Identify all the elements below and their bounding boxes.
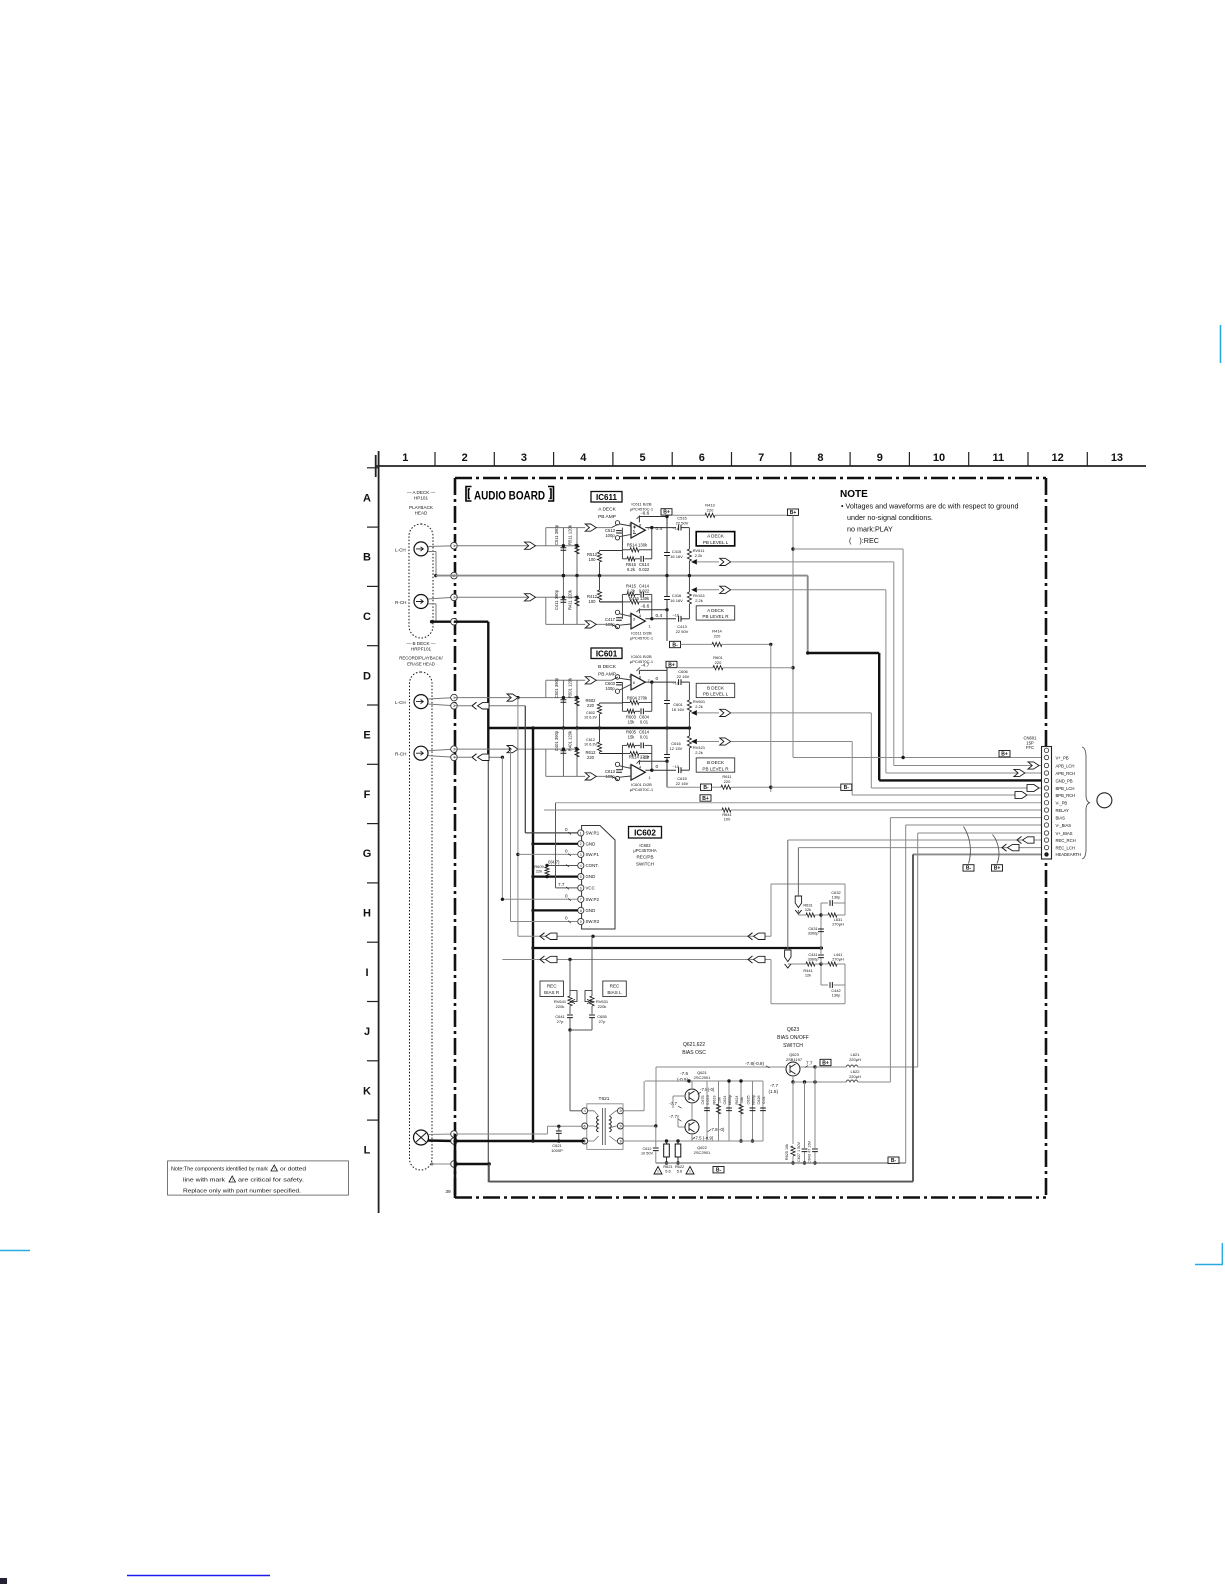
svg-text:0.022: 0.022 xyxy=(639,567,650,572)
resistor R625 10k xyxy=(792,1082,794,1144)
svg-text:under no-signal conditions.: under no-signal conditions. xyxy=(847,513,933,522)
feedback network xyxy=(622,744,627,746)
svg-text:11: 11 xyxy=(993,452,1005,464)
svg-text:8: 8 xyxy=(817,452,823,464)
wire xyxy=(428,597,454,599)
svg-text:G: G xyxy=(363,848,372,860)
svg-text:PB LEVEL L: PB LEVEL L xyxy=(703,540,729,545)
wire APB_RCH xyxy=(886,772,1042,774)
svg-text:4: 4 xyxy=(580,452,587,464)
svg-text:GND_PB: GND_PB xyxy=(1056,778,1073,783)
svg-text:D: D xyxy=(363,670,371,682)
svg-text:15k: 15k xyxy=(628,720,636,725)
wire REC L bus xyxy=(518,935,771,937)
svg-text:6800p: 6800p xyxy=(728,1095,732,1106)
svg-text:9: 9 xyxy=(580,920,582,924)
svg-text:10: 10 xyxy=(933,452,945,464)
svg-text:B DECK: B DECK xyxy=(598,664,617,670)
wire xyxy=(666,783,668,787)
svg-text:5: 5 xyxy=(580,875,582,879)
svg-text:F: F xyxy=(364,789,371,801)
svg-text:9: 9 xyxy=(877,452,883,464)
svg-text:4: 4 xyxy=(580,864,582,868)
svg-text:B+: B+ xyxy=(668,662,675,668)
B DECK PB LEVEL L box xyxy=(696,683,735,697)
IC602 pins xyxy=(578,830,584,836)
head coil L-CH (A deck) xyxy=(414,542,428,556)
svg-text:-6.6: -6.6 xyxy=(641,604,650,610)
svg-text:μPC4570C-1: μPC4570C-1 xyxy=(630,787,654,792)
resistor R441 12k xyxy=(788,963,806,965)
svg-text:μPC4570HA: μPC4570HA xyxy=(633,848,657,853)
signal arrow xyxy=(585,524,596,531)
resistor R611 220 xyxy=(712,786,722,788)
wire xyxy=(620,766,631,769)
IC602 body xyxy=(582,826,615,930)
svg-text:NOTE: NOTE xyxy=(840,489,868,500)
svg-text:-7.7: -7.7 xyxy=(770,1083,778,1088)
svg-text:SW.R1: SW.R1 xyxy=(586,831,600,836)
wire erase ground (thick) xyxy=(454,1140,585,1142)
down arrow (REC L) xyxy=(795,896,801,908)
svg-text:HRPF101: HRPF101 xyxy=(411,646,432,651)
svg-text:SWITCH: SWITCH xyxy=(783,1043,803,1049)
svg-text:C626: C626 xyxy=(757,1095,761,1104)
REC BIAS R box xyxy=(540,981,564,997)
svg-text:R604 270k: R604 270k xyxy=(627,695,648,700)
capacitor C442 130p xyxy=(821,984,828,986)
op-amp IC611b xyxy=(631,613,645,629)
IC602 label xyxy=(629,827,662,839)
IC601 label xyxy=(591,648,622,659)
svg-text:2: 2 xyxy=(462,452,468,464)
svg-text:10k: 10k xyxy=(718,1097,722,1103)
svg-text:L-CH: L-CH xyxy=(395,700,406,705)
wire CONT xyxy=(547,865,578,867)
svg-text:220: 220 xyxy=(707,507,714,512)
wire BPB_RCH xyxy=(852,794,1042,796)
svg-text:2.2k: 2.2k xyxy=(695,553,703,558)
switch contact / capacitor C513 xyxy=(615,521,619,525)
svg-text:C602: C602 xyxy=(586,711,595,715)
capacitor C612 xyxy=(655,1126,657,1147)
svg-text:0: 0 xyxy=(565,893,568,898)
svg-text:C401 390p: C401 390p xyxy=(554,730,559,751)
wire xyxy=(428,749,454,751)
svg-text:5: 5 xyxy=(639,452,645,464)
svg-text:27p: 27p xyxy=(557,1019,564,1024)
wire xyxy=(428,545,454,548)
svg-text:R623: R623 xyxy=(712,1095,716,1104)
svg-text:-7.8(-0.9): -7.8(-0.9) xyxy=(745,1061,764,1066)
REC BIAS L box xyxy=(603,981,627,997)
wire xyxy=(594,775,612,777)
wire xyxy=(428,551,436,553)
svg-text:are critical for safety.: are critical for safety. xyxy=(238,1177,305,1183)
svg-text:GND: GND xyxy=(586,908,596,913)
svg-text:A DECK: A DECK xyxy=(707,534,725,539)
connector pin 1 (A deck) xyxy=(451,542,458,549)
svg-text:2: 2 xyxy=(580,842,582,846)
svg-text:1: 1 xyxy=(580,831,582,835)
svg-text:PB LEVEL R: PB LEVEL R xyxy=(702,766,729,771)
connector pin 7 (B deck) xyxy=(451,1161,458,1168)
record/playback head HRPF101 outline xyxy=(410,672,433,1170)
wire output xyxy=(645,527,676,529)
svg-text:no mark:PLAY: no mark:PLAY xyxy=(847,525,893,534)
head coil R-CH (A deck) xyxy=(414,595,428,609)
svg-text:A DECK: A DECK xyxy=(707,608,725,613)
svg-text:R514 130k: R514 130k xyxy=(627,543,648,548)
transformer pin 3 xyxy=(617,1108,623,1114)
capacitor C621 1000P xyxy=(558,1126,560,1130)
svg-text:2.2k: 2.2k xyxy=(695,704,703,709)
wire row pin3 A xyxy=(454,596,577,598)
svg-text:HEAD: HEAD xyxy=(415,510,428,515)
capacitor C515 22 50V xyxy=(679,525,681,531)
svg-text:B-: B- xyxy=(844,785,850,791)
wire xyxy=(793,548,903,550)
svg-text:39: 39 xyxy=(445,1189,451,1195)
switch contact / capacitor C613 xyxy=(615,762,619,766)
svg-text:10 6.3V: 10 6.3V xyxy=(584,743,598,747)
svg-text:V-_BIAS: V-_BIAS xyxy=(1056,823,1072,828)
svg-text:2.2k: 2.2k xyxy=(695,598,703,603)
svg-text:15k: 15k xyxy=(628,735,636,740)
wire xyxy=(454,1134,457,1198)
wire xyxy=(428,603,436,605)
wire xyxy=(731,712,872,714)
wire xyxy=(691,1134,693,1141)
signal arrow xyxy=(720,738,731,745)
wire base Q622 xyxy=(678,1126,685,1128)
wire xyxy=(594,679,612,681)
svg-text:-4.7: -4.7 xyxy=(641,663,650,669)
wire supply xyxy=(638,670,640,674)
power symbol B+ xyxy=(700,795,711,801)
svg-text:130p: 130p xyxy=(832,895,841,900)
wire GND3 xyxy=(533,909,578,911)
svg-text:BIAS ON/OFF: BIAS ON/OFF xyxy=(777,1035,809,1041)
wire base Q623 xyxy=(656,1066,786,1068)
potentiometer RV631 220k xyxy=(591,936,593,996)
svg-text:22 50V: 22 50V xyxy=(676,520,689,525)
fusible resistor R622 5.6 xyxy=(677,1141,679,1144)
signal arrow xyxy=(720,558,731,565)
svg-text:L: L xyxy=(364,1145,371,1157)
svg-text:C675: C675 xyxy=(701,1095,705,1104)
capacitor C606 22 16V xyxy=(679,679,681,685)
svg-text:BIAS L: BIAS L xyxy=(607,990,622,995)
wire T621 pin1 xyxy=(620,1140,678,1142)
wire SW.R1 xyxy=(525,832,577,834)
svg-text:0.015: 0.015 xyxy=(706,1095,710,1105)
svg-text:• Voltages and waveforms are d: • Voltages and waveforms are dc with res… xyxy=(841,502,1019,511)
wire input tap A-L xyxy=(545,528,547,546)
resistor R601 220 xyxy=(678,667,713,669)
svg-text:100: 100 xyxy=(589,557,597,562)
svg-text:10k: 10k xyxy=(740,1097,744,1103)
signal arrow xyxy=(507,746,518,753)
wire input tap A-R xyxy=(545,597,547,624)
wire output BL xyxy=(697,712,720,714)
wire T621 pin3 up xyxy=(620,1110,644,1112)
svg-text:0: 0 xyxy=(656,676,659,682)
wire xyxy=(428,756,454,758)
wire xyxy=(487,758,489,1182)
svg-text:220k: 220k xyxy=(598,1004,607,1009)
svg-text:−10: −10 xyxy=(673,765,679,769)
wire Q623 emitter xyxy=(792,1076,794,1082)
wire row pin1 A xyxy=(454,545,577,547)
svg-text:L-CH: L-CH xyxy=(395,548,406,553)
signal arrow xyxy=(540,956,545,963)
capacitor C632 130p xyxy=(821,902,828,904)
transistor Q621 xyxy=(685,1089,699,1103)
svg-text:B+: B+ xyxy=(822,1060,829,1066)
svg-text:SW.P1: SW.P1 xyxy=(586,852,600,857)
wire xyxy=(620,678,631,680)
svg-text:12k: 12k xyxy=(805,907,811,912)
svg-text:220: 220 xyxy=(715,660,722,665)
svg-text:— B DECK —: — B DECK — xyxy=(407,641,436,646)
power symbol B- xyxy=(888,1157,899,1163)
svg-text:B+: B+ xyxy=(994,866,1001,872)
capacitor C641 27p xyxy=(567,1015,573,1018)
svg-text:C501 390p: C501 390p xyxy=(554,677,559,698)
wire xyxy=(501,757,503,899)
wire output xyxy=(645,681,676,683)
svg-text:R-CH: R-CH xyxy=(395,600,406,605)
svg-text:220μH: 220μH xyxy=(849,1074,861,1079)
svg-text:PB AMP: PB AMP xyxy=(598,514,616,520)
R-ch rec filter loop xyxy=(771,1003,845,1005)
wire SW.P1 xyxy=(518,853,578,855)
svg-text:!: ! xyxy=(274,1167,275,1171)
svg-text:100p: 100p xyxy=(605,533,615,538)
osc bottom rail xyxy=(620,1140,763,1142)
wire row pin2 B xyxy=(472,702,477,709)
svg-text:C612: C612 xyxy=(586,738,595,742)
signal arrow xyxy=(748,956,753,963)
capacitor C501 / resistor R501 xyxy=(562,680,564,728)
svg-text:!: ! xyxy=(232,1178,233,1182)
wire V-_BIAS xyxy=(906,824,1042,826)
safety note box xyxy=(168,1161,349,1195)
svg-text:BIAS: BIAS xyxy=(1056,815,1066,820)
potentiometer RV601 2.2k xyxy=(688,682,690,700)
svg-text:-7.7: -7.7 xyxy=(669,1114,677,1119)
capacitor C631 3300p xyxy=(818,929,824,932)
wire input tap B-L xyxy=(545,680,547,697)
svg-text:5.6: 5.6 xyxy=(677,1169,682,1174)
svg-text:B-: B- xyxy=(891,1158,897,1164)
capacitor C413 22 50V xyxy=(679,616,681,622)
capacitor C511 / resistor R511 xyxy=(562,528,564,576)
wire xyxy=(594,527,612,529)
svg-text:PLAYBACK: PLAYBACK xyxy=(409,505,434,510)
svg-text:HP101: HP101 xyxy=(414,495,428,500)
grid ruler top xyxy=(376,452,1146,477)
fusible resistor R621 5.6 xyxy=(666,1141,668,1144)
svg-text:BIAS OSC: BIAS OSC xyxy=(682,1050,706,1056)
svg-text:C: C xyxy=(363,611,371,623)
svg-text:100p: 100p xyxy=(605,686,615,691)
svg-text:Q623: Q623 xyxy=(787,1027,799,1033)
svg-text:APB_LCH: APB_LCH xyxy=(1056,763,1075,768)
potentiometer RV641 220k xyxy=(569,960,571,997)
svg-text:22 16V: 22 16V xyxy=(676,781,689,786)
svg-text:0: 0 xyxy=(565,849,568,854)
power symbol B+ xyxy=(661,509,672,515)
wire pin7 shield xyxy=(454,1163,489,1165)
capacitor C655 27p xyxy=(589,1015,595,1018)
A DECK PB LEVEL R box xyxy=(696,606,735,620)
wire xyxy=(620,524,631,526)
wire xyxy=(487,622,489,758)
svg-text:( ):REC: ( ):REC xyxy=(849,536,879,545)
svg-text:line with mark: line with mark xyxy=(183,1177,225,1183)
svg-text:(1.5): (1.5) xyxy=(769,1089,779,1094)
wire T621 pin2 xyxy=(620,1125,655,1127)
note text block xyxy=(840,489,1019,545)
svg-text:IC601: IC601 xyxy=(596,650,618,659)
svg-text:0: 0 xyxy=(565,827,568,832)
op-amp IC611a xyxy=(631,522,645,538)
wire xyxy=(731,589,886,591)
safety mark xyxy=(686,1167,694,1175)
svg-text:C625: C625 xyxy=(746,1095,750,1104)
svg-text:3: 3 xyxy=(580,853,582,857)
feedback resistor R604 270k xyxy=(651,682,653,711)
wire row pin2 A (ground bus) xyxy=(436,575,808,577)
wire REC_RCH xyxy=(788,839,1042,841)
svg-text:or dotted: or dotted xyxy=(280,1166,306,1172)
svg-text:K: K xyxy=(363,1085,371,1097)
svg-text:SWITCH: SWITCH xyxy=(636,862,654,867)
svg-text:6: 6 xyxy=(699,452,705,464)
head coil R-CH (B deck) xyxy=(414,746,428,760)
wire xyxy=(428,698,454,699)
signal arrow xyxy=(507,694,518,701)
resistor R609 22k xyxy=(546,866,548,868)
wire xyxy=(620,614,631,617)
inductor L622 220uH xyxy=(793,1081,846,1083)
transformer pin 2 xyxy=(617,1123,623,1129)
wire xyxy=(510,749,512,921)
op-amp IC601b xyxy=(631,765,645,781)
svg-text:VCC: VCC xyxy=(586,886,595,891)
svg-text:C624: C624 xyxy=(723,1095,727,1104)
wire xyxy=(594,623,612,625)
svg-text:220: 220 xyxy=(724,779,731,784)
wire REC R bus xyxy=(502,959,771,961)
signal arrow xyxy=(1027,785,1039,792)
signal arrow xyxy=(585,621,596,628)
potentiometer RV421 2.2k xyxy=(688,728,690,736)
signal arrow xyxy=(585,677,596,684)
wire output L xyxy=(697,561,720,563)
svg-text:270μH: 270μH xyxy=(832,957,844,962)
frame ground circle xyxy=(1097,793,1112,808)
svg-text:16 16V: 16 16V xyxy=(670,598,683,603)
wire row pin3 B xyxy=(454,748,577,750)
connector pin 2 (B deck) xyxy=(451,703,458,710)
power symbol B- xyxy=(701,784,712,790)
svg-text:B-: B- xyxy=(966,866,972,872)
connector pin 4 (A deck) xyxy=(451,618,458,625)
power symbol B+ xyxy=(999,751,1010,757)
wire BIAS xyxy=(890,817,1042,819)
svg-text:16 16V: 16 16V xyxy=(672,707,685,712)
svg-text:R416 130k: R416 130k xyxy=(629,596,650,601)
transformer pin 5 xyxy=(582,1123,588,1129)
svg-text:3300p: 3300p xyxy=(808,957,819,962)
svg-text:6.2k: 6.2k xyxy=(627,567,636,572)
wire supply xyxy=(638,761,640,764)
svg-text:R411 120k: R411 120k xyxy=(568,589,573,610)
signal arrow xyxy=(1028,762,1039,769)
power symbol B- xyxy=(670,641,681,647)
resistor R515 / capacitor C514 xyxy=(622,558,627,560)
svg-text:-7.5 (-0.9): -7.5 (-0.9) xyxy=(694,1136,714,1141)
wire xyxy=(731,561,894,563)
svg-text:μPC4570C-1: μPC4570C-1 xyxy=(630,635,654,640)
connector pin 6 (B deck) xyxy=(451,1138,458,1145)
connector pin 5 (B deck) xyxy=(451,1131,458,1138)
svg-text:T621: T621 xyxy=(599,1096,610,1102)
svg-text:V-_PB: V-_PB xyxy=(1056,801,1068,806)
svg-text:22 16V: 22 16V xyxy=(677,674,690,679)
svg-text:8: 8 xyxy=(580,909,582,913)
svg-text:−16: −16 xyxy=(673,614,679,618)
wire base Q621 xyxy=(673,1095,685,1097)
resistor R412 100 xyxy=(599,576,601,590)
svg-text:-7.5: -7.5 xyxy=(680,1071,688,1076)
svg-text:REC_LCH: REC_LCH xyxy=(1056,845,1075,850)
svg-text:REC_RCH: REC_RCH xyxy=(1056,838,1076,843)
osc top rail xyxy=(645,1080,763,1082)
inductor L631 xyxy=(821,914,828,916)
inductor L441 xyxy=(821,963,828,965)
feedback resistor R614 270k xyxy=(622,753,630,755)
svg-text:GND: GND xyxy=(586,874,596,879)
svg-text:C511 390p: C511 390p xyxy=(554,524,559,545)
svg-text:0.01: 0.01 xyxy=(762,1096,766,1103)
connector pin 1 (B deck) xyxy=(451,694,458,701)
signal arrow xyxy=(525,594,536,601)
svg-text:B+: B+ xyxy=(1001,752,1008,758)
svg-text:22k: 22k xyxy=(536,869,542,874)
wire xyxy=(666,515,668,552)
connector CN601 body xyxy=(1042,747,1052,860)
svg-text:7.7: 7.7 xyxy=(558,882,565,887)
svg-text:Note:The components identified: Note:The components identified by mark xyxy=(171,1166,268,1172)
capacitor C441 3300p xyxy=(820,948,822,954)
IC611 label xyxy=(591,492,622,503)
wire VCC xyxy=(556,887,578,889)
bias osc network C675 R623 C624 R624 C625 C626 xyxy=(706,1081,708,1141)
resistor R603 / capacitor C604 xyxy=(622,710,627,712)
capacitor C415 decoupling xyxy=(664,553,670,556)
potentiometer RV511 2.2k xyxy=(688,528,690,549)
svg-text:HEADEARTH: HEADEARTH xyxy=(1056,852,1082,857)
svg-text:H: H xyxy=(363,908,371,920)
svg-text:C612: C612 xyxy=(642,1147,651,1151)
svg-text:CONT.: CONT. xyxy=(586,863,599,868)
wire HEADEARTH xyxy=(913,853,1042,855)
svg-text:R511 120k: R511 120k xyxy=(568,524,573,545)
